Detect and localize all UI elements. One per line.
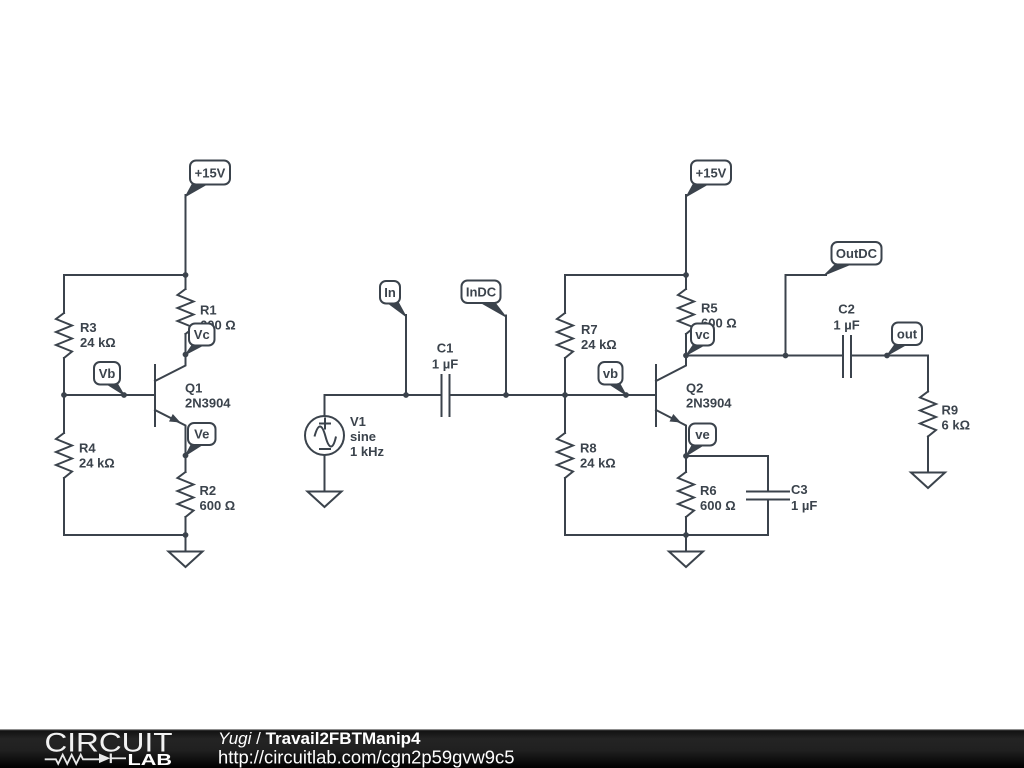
footer bar [0, 729, 1024, 768]
node flag vc [686, 324, 714, 356]
wire OutDC stub [786, 275, 827, 356]
svg-text:In: In [384, 285, 396, 300]
node flag Ve [186, 423, 216, 456]
node junction bottom rail left [183, 532, 189, 538]
resistor R6 600 Ohm [678, 456, 736, 535]
svg-text:OutDC: OutDC [836, 246, 878, 261]
svg-text:600 Ω: 600 Ω [700, 498, 736, 513]
ground left stage [169, 535, 203, 567]
svg-text:600 Ω: 600 Ω [200, 498, 236, 513]
capacitor C3 1 uF [747, 482, 817, 513]
wire +15V supply right down to rail [685, 195, 687, 275]
svg-text:vc: vc [695, 327, 709, 342]
wire ve to C3 [686, 456, 768, 492]
svg-text:InDC: InDC [466, 284, 497, 299]
wire out to R9 [887, 356, 928, 392]
wire In stub [405, 315, 407, 395]
svg-text:ve: ve [695, 427, 709, 442]
node dot vc [683, 353, 689, 359]
CircuitLab logo wordmark [45, 727, 173, 768]
node flag In [380, 281, 406, 317]
node dot Vc [183, 352, 189, 358]
node flag vb [599, 362, 627, 395]
wire C3 to bottom rail [767, 500, 769, 536]
node flag ve [686, 424, 716, 457]
ground V1 [308, 492, 342, 508]
svg-text:R7: R7 [581, 322, 598, 337]
resistor R5 600 Ohm [678, 275, 737, 356]
power flag +15V (left) [186, 161, 231, 197]
node junction bottom rail right [683, 532, 689, 538]
svg-text:24 kΩ: 24 kΩ [80, 335, 116, 350]
svg-text:Q2: Q2 [686, 381, 703, 396]
node flag Vc [186, 324, 215, 355]
transistor Q2 2N3904 [656, 356, 732, 457]
svg-text:R4: R4 [79, 441, 96, 456]
svg-text:+15V: +15V [696, 166, 727, 181]
node flag InDC [462, 281, 507, 318]
wire top rail right stage [565, 274, 686, 276]
svg-text:1 µF: 1 µF [432, 357, 458, 372]
wire vc to C2 [686, 355, 843, 357]
resistor R1 600 Ohm [178, 275, 236, 355]
svg-text:LAB: LAB [128, 752, 173, 768]
node dot out [884, 353, 890, 359]
svg-text:24 kΩ: 24 kΩ [79, 456, 115, 471]
svg-text:24 kΩ: 24 kΩ [581, 337, 617, 352]
footer title Yugi / Travail2FBTManip4 [218, 729, 421, 748]
wire top rail left stage [64, 274, 186, 276]
resistor R4 24 kOhm [56, 395, 115, 535]
svg-text:C3: C3 [791, 482, 808, 497]
svg-text:C1: C1 [437, 341, 454, 356]
wire +15V supply down to collector rail node [185, 195, 187, 275]
node dot OutDC [783, 353, 789, 359]
transistor Q1 2N3904 [155, 355, 231, 456]
node dot In [403, 392, 409, 398]
wire base right stage [565, 394, 656, 396]
resistor R9 6 kOhm [920, 392, 970, 473]
wire V1 to C1 [325, 395, 442, 416]
wire V1 to ground [324, 455, 326, 492]
ground R9 [911, 473, 945, 489]
svg-text:Yugi / Travail2FBTManip4: Yugi / Travail2FBTManip4 [218, 729, 421, 748]
svg-text:out: out [897, 326, 918, 341]
resistor R8 24 kOhm [557, 395, 616, 535]
svg-text:R9: R9 [942, 403, 959, 418]
node flag out [887, 323, 922, 356]
svg-text:1 kHz: 1 kHz [350, 444, 384, 459]
node junction top rail left [183, 272, 189, 278]
footer url [218, 747, 514, 768]
svg-text:R1: R1 [200, 303, 217, 318]
node junction top rail right [683, 272, 689, 278]
wire C1 to base net [450, 394, 566, 396]
voltage source V1 sine 1 kHz [305, 414, 384, 459]
svg-text:Vb: Vb [99, 366, 116, 381]
power flag +15V (right) [687, 161, 732, 197]
node vb junction (R7/R8/base) [562, 392, 568, 398]
wire base left stage [64, 394, 155, 396]
CircuitLab logo resistor-diode symbol [45, 754, 126, 764]
wire InDC stub [505, 316, 507, 396]
svg-text:2N3904: 2N3904 [185, 396, 231, 411]
svg-text:R8: R8 [580, 441, 597, 456]
svg-text:2N3904: 2N3904 [686, 396, 732, 411]
svg-text:Ve: Ve [194, 427, 209, 442]
svg-text:Q1: Q1 [185, 381, 202, 396]
svg-text:R2: R2 [200, 483, 217, 498]
wire C2 to out [851, 355, 887, 357]
svg-text:C2: C2 [838, 302, 855, 317]
resistor R2 600 Ohm [178, 456, 236, 536]
capacitor C1 1 uF [432, 341, 458, 416]
svg-text:1 µF: 1 µF [833, 318, 859, 333]
svg-text:vb: vb [603, 366, 618, 381]
svg-text:V1: V1 [350, 414, 366, 429]
resistor R7 24 kOhm [557, 275, 617, 395]
svg-text:R6: R6 [700, 483, 717, 498]
node dot vb [623, 392, 629, 398]
svg-text:R5: R5 [701, 301, 718, 316]
svg-text:R3: R3 [80, 320, 97, 335]
wire bottom rail left stage [64, 534, 186, 536]
capacitor C2 1 uF [833, 302, 859, 377]
svg-text:24 kΩ: 24 kΩ [580, 456, 616, 471]
node dot ve [683, 453, 689, 459]
resistor R3 24 kOhm [56, 275, 116, 395]
svg-text:http://circuitlab.com/cgn2p59g: http://circuitlab.com/cgn2p59gvw9c5 [218, 747, 514, 768]
node dot Ve [183, 453, 189, 459]
svg-text:sine: sine [350, 429, 376, 444]
svg-text:Vc: Vc [194, 327, 210, 342]
node dot InDC [503, 392, 509, 398]
node Vb junction (R3/R4/base) [61, 392, 67, 398]
ground right stage [669, 535, 703, 567]
svg-text:6 kΩ: 6 kΩ [942, 418, 971, 433]
svg-text:+15V: +15V [195, 166, 226, 181]
wire bottom rail right stage [565, 534, 768, 536]
node dot Vb [121, 392, 127, 398]
svg-text:1 µF: 1 µF [791, 498, 817, 513]
node flag OutDC [825, 242, 882, 275]
node flag Vb [94, 362, 124, 395]
